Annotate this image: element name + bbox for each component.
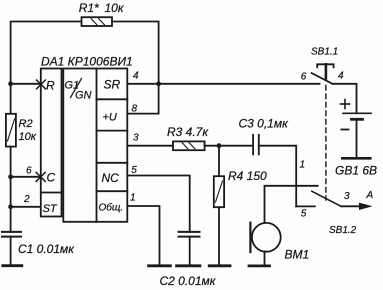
wire pin 3 arrow to A	[341, 205, 366, 207]
ground (R4)	[209, 264, 230, 267]
IC divider SR/+U	[97, 98, 128, 100]
svg-text:4: 4	[338, 71, 344, 82]
svg-text:1: 1	[300, 160, 306, 171]
resistor R2	[6, 114, 16, 147]
svg-text:5: 5	[301, 209, 307, 220]
wire R4 bottom to ground	[218, 207, 220, 266]
svg-text:1: 1	[130, 193, 136, 204]
wire pin R from node to IC	[11, 83, 41, 85]
svg-text:4: 4	[133, 71, 139, 82]
svg-text:SB1.1: SB1.1	[311, 47, 338, 58]
svg-text:R2: R2	[19, 118, 33, 130]
wire pin 4 long run to SB1.1	[127, 83, 319, 85]
svg-text:+U: +U	[103, 112, 117, 124]
IC DA1 KR1006VI1 left column box	[41, 69, 62, 217]
wire mic bottom	[264, 251, 266, 266]
battery internal wire	[356, 121, 358, 158]
switch SB1.1 button stem	[325, 64, 328, 78]
svg-text:A: A	[366, 190, 374, 201]
battery GB1 plate - (short)	[352, 118, 363, 121]
svg-text:R4 150: R4 150	[228, 169, 267, 183]
svg-text:GN: GN	[75, 90, 92, 102]
arrowhead A	[359, 203, 373, 210]
svg-text:R1*: R1*	[79, 1, 99, 15]
G1/GN fraction slash	[71, 79, 82, 98]
svg-text:C2 0.01мк: C2 0.01мк	[160, 274, 217, 288]
switch SB1.2 pin5 stub	[296, 205, 315, 207]
svg-text:10к: 10к	[19, 131, 37, 143]
svg-text:GB1 6В: GB1 6В	[335, 164, 377, 178]
svg-text:SR: SR	[104, 78, 121, 92]
wire node6 to node2	[10, 177, 12, 207]
capacitor C3	[253, 135, 259, 155]
resistor R4	[214, 176, 224, 207]
svg-text:6: 6	[26, 165, 32, 176]
wire C3 right, corner down to SB1.2	[259, 146, 296, 207]
junction node (R pin / R2 top)	[8, 81, 13, 86]
svg-text:R3 4.7к: R3 4.7к	[167, 125, 209, 139]
svg-text:ST: ST	[43, 203, 58, 215]
svg-text:5: 5	[131, 165, 137, 176]
svg-text:C: C	[47, 171, 56, 185]
svg-text:R: R	[46, 79, 55, 93]
svg-text:Общ.: Общ.	[99, 202, 124, 214]
svg-text:DA1 КР1006ВИ1: DA1 КР1006ВИ1	[41, 54, 133, 68]
svg-text:NC: NC	[102, 171, 120, 185]
junction node (C pin 6 / R2 bottom)	[8, 174, 13, 179]
svg-text:6: 6	[301, 72, 307, 83]
IC internal vertical divider	[96, 69, 98, 222]
wire SB1.1 contact4 to battery	[333, 84, 357, 113]
wire pin 8 to junction	[127, 84, 158, 114]
ground (pin1)	[149, 264, 171, 267]
wire pin ST (2) from node to IC	[11, 206, 41, 208]
IC main box (middle+right columns)	[63, 69, 127, 222]
wire C1 bottom	[10, 237, 12, 266]
switch SB1.2 blade	[312, 191, 341, 206]
switch SB1.1 button cap	[317, 64, 333, 67]
mechanical link dashed	[325, 86, 327, 201]
svg-text:10к: 10к	[105, 1, 125, 15]
IC divider empty/NC	[97, 162, 128, 164]
svg-text:3: 3	[344, 191, 350, 202]
junction node (pin 4 / pin 8 / R1)	[156, 81, 161, 86]
switch SB1.1 blade	[312, 73, 333, 84]
junction node (ST pin 2 / C1)	[8, 204, 13, 209]
IC divider +U/empty	[97, 130, 128, 132]
svg-text:SB1.2: SB1.2	[329, 225, 357, 236]
wire pin 3 to R3	[127, 145, 173, 147]
wire mic riser	[265, 186, 318, 223]
battery GB1 bottom plate	[342, 157, 370, 160]
IC left column divider above ST	[41, 192, 62, 194]
x-mark unused pin C	[36, 172, 45, 181]
wire node2 down to C1	[10, 207, 12, 232]
svg-text:C1 0.01мк: C1 0.01мк	[18, 242, 75, 256]
battery plus sign	[341, 100, 350, 109]
wire pin 5 to C2	[127, 176, 189, 232]
battery GB1 plate + (long)	[343, 112, 371, 114]
ground (C1)	[3, 264, 22, 267]
capacitor C1	[2, 232, 21, 237]
wire R2 bottom to node 6	[10, 147, 12, 177]
svg-text:BM1: BM1	[285, 248, 310, 262]
microphone BM1	[252, 223, 281, 252]
svg-text:2: 2	[23, 194, 30, 205]
IC divider NC/Common	[97, 190, 128, 192]
capacitor C2	[179, 232, 200, 237]
x-mark unused pin R	[37, 80, 46, 89]
ground (C2)	[177, 264, 200, 267]
wire pin 1 to ground	[127, 206, 159, 266]
battery minus sign	[341, 129, 348, 131]
junction node (R3 / R4 / C3)	[217, 143, 222, 148]
svg-text:8: 8	[132, 104, 138, 115]
wire top-left horizontal to R1	[11, 22, 82, 114]
wire pin C (6) from node to IC	[11, 176, 41, 178]
wire C2 bottom	[189, 237, 191, 266]
resistor R1	[82, 17, 113, 26]
ground (mic)	[249, 264, 270, 267]
wire R1 right to corner down to pin4 junction	[112, 22, 159, 84]
wire R4 top	[218, 146, 220, 177]
svg-text:3: 3	[133, 133, 139, 144]
resistor R3	[173, 141, 205, 150]
wire R3 to C3	[205, 145, 252, 147]
svg-text:C3 0,1мк: C3 0,1мк	[239, 117, 290, 131]
